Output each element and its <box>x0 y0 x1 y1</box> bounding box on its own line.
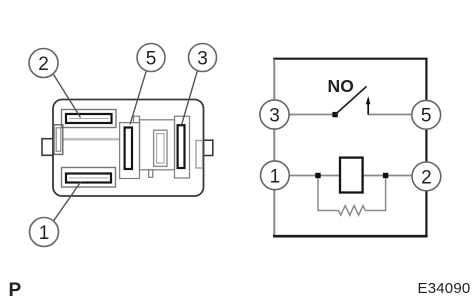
switch fixed contact <box>367 99 369 115</box>
node 2 <box>412 162 441 191</box>
callout circle 1 <box>30 218 59 247</box>
callout circle 2 <box>29 49 58 78</box>
junction right <box>383 173 388 178</box>
leader line to terminal 1 <box>54 182 81 221</box>
terminal 1 slot inner line <box>69 177 108 179</box>
svg-text:5: 5 <box>421 106 432 127</box>
leader line to terminal 3 <box>182 70 198 125</box>
wire node1 to node2 <box>289 175 413 177</box>
connector cavity middle section <box>140 120 175 170</box>
right inner wall <box>196 141 203 169</box>
terminal 5 slot <box>125 128 132 170</box>
left keyway slot inner <box>56 128 61 151</box>
middle keyway outer <box>154 130 167 166</box>
schematic frame left edge <box>273 59 275 237</box>
svg-text:3: 3 <box>269 105 280 126</box>
resistor branch right rise <box>365 178 385 211</box>
svg-text:3: 3 <box>197 48 208 69</box>
wire contact to node5 <box>368 114 412 116</box>
leader line to terminal 5 <box>130 71 146 125</box>
svg-text:2: 2 <box>421 167 432 188</box>
left mounting tab <box>42 139 53 156</box>
callout circle 5 <box>137 44 165 72</box>
middle keyway inner <box>157 134 164 163</box>
terminal 3 slot <box>178 125 185 168</box>
callout circle 3 <box>189 44 217 72</box>
schematic frame top edge <box>273 58 428 60</box>
leader line to terminal 2 <box>54 75 81 118</box>
svg-text:P: P <box>9 280 22 296</box>
terminal 2 slot inner line <box>69 118 109 120</box>
svg-text:2: 2 <box>38 54 49 75</box>
svg-text:E34090: E34090 <box>418 280 471 296</box>
resistor branch left drop <box>318 178 339 211</box>
schematic frame bottom edge <box>273 235 428 238</box>
right mounting tab <box>204 140 213 155</box>
wire node3 to switch <box>289 114 335 116</box>
node 3 <box>260 100 289 129</box>
connector cavity bottom notch <box>149 170 153 178</box>
terminal 2 slot outer <box>62 110 117 128</box>
svg-text:NO: NO <box>328 76 354 96</box>
junction left <box>315 173 320 178</box>
terminal 1 slot outer <box>62 168 116 188</box>
node 5 <box>412 100 441 129</box>
terminal 1 slot <box>66 174 111 183</box>
gray rail inside body <box>63 138 120 140</box>
connector cavity left bar <box>120 123 140 179</box>
switch arm <box>335 86 367 114</box>
node 1 <box>261 161 290 190</box>
resistor R <box>339 206 366 216</box>
left keyway slot outer <box>54 125 63 155</box>
connector cavity right bar <box>175 116 190 178</box>
svg-text:1: 1 <box>39 223 50 244</box>
svg-text:1: 1 <box>270 166 281 187</box>
switch pivot dot <box>332 112 337 117</box>
relay body outline <box>53 100 204 197</box>
svg-text:5: 5 <box>146 48 157 69</box>
connector cavity top notch <box>134 116 140 122</box>
relay coil <box>340 158 363 193</box>
terminal 2 slot <box>66 114 112 123</box>
schematic frame right edge <box>425 59 427 237</box>
